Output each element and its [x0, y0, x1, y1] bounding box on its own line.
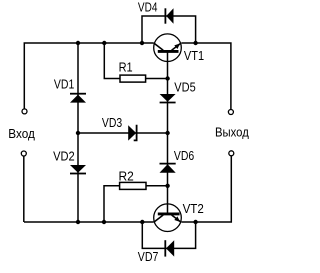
- svg-text:VD4: VD4: [138, 0, 158, 14]
- svg-text:R2: R2: [119, 168, 134, 183]
- svg-text:VT1: VT1: [184, 48, 204, 63]
- svg-text:VD7: VD7: [138, 249, 159, 264]
- svg-text:VD1: VD1: [54, 77, 74, 92]
- svg-text:VD5: VD5: [174, 80, 195, 95]
- svg-text:VD3: VD3: [102, 115, 122, 130]
- svg-text:VD2: VD2: [53, 148, 75, 163]
- svg-text:Выход: Выход: [215, 124, 249, 139]
- svg-text:VT2: VT2: [183, 201, 204, 216]
- svg-text:R1: R1: [119, 60, 133, 75]
- svg-text:Вход: Вход: [8, 126, 35, 141]
- svg-text:VD6: VD6: [174, 148, 194, 163]
